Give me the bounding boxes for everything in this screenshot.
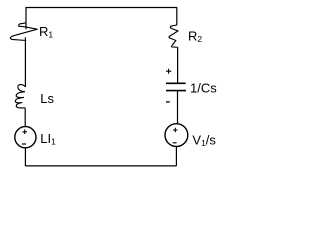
wire top horizontal (26, 7, 177, 9)
svg-text:V1/s: V1/s (192, 132, 216, 148)
svg-text:Ls: Ls (40, 91, 54, 106)
source LI1 circle (15, 127, 36, 148)
svg-text:R2: R2 (188, 29, 202, 45)
wire right cap-to-source vertical (177, 91, 179, 124)
wire left lower vertical (24, 108, 26, 127)
wire left-bottom vertical (24, 148, 26, 166)
capacitor C top plate (166, 82, 186, 84)
source LI1 minus (22, 143, 26, 145)
wire right R2-to-cap vertical (177, 47, 179, 83)
wire bottom horizontal (25, 165, 176, 167)
capacitor plus label (166, 69, 171, 74)
svg-text:1/Cs: 1/Cs (190, 80, 217, 95)
capacitor C bottom plate (166, 90, 186, 92)
svg-text:R1: R1 (39, 24, 53, 40)
source V1/s minus (173, 142, 177, 144)
inductor Ls (15, 85, 26, 108)
wire right-bottom vertical (175, 147, 177, 167)
svg-text:LI1: LI1 (40, 131, 56, 147)
source V1/s circle (165, 124, 188, 147)
wire left-top vertical (25, 7, 27, 29)
resistor R1 (10, 23, 37, 41)
source V1/s plus (173, 128, 178, 133)
capacitor minus label (166, 101, 170, 103)
wire right-top vertical (176, 7, 178, 25)
resistor R2 (169, 25, 178, 47)
wire left-mid vertical (24, 37, 26, 87)
source LI1 plus (22, 130, 27, 135)
